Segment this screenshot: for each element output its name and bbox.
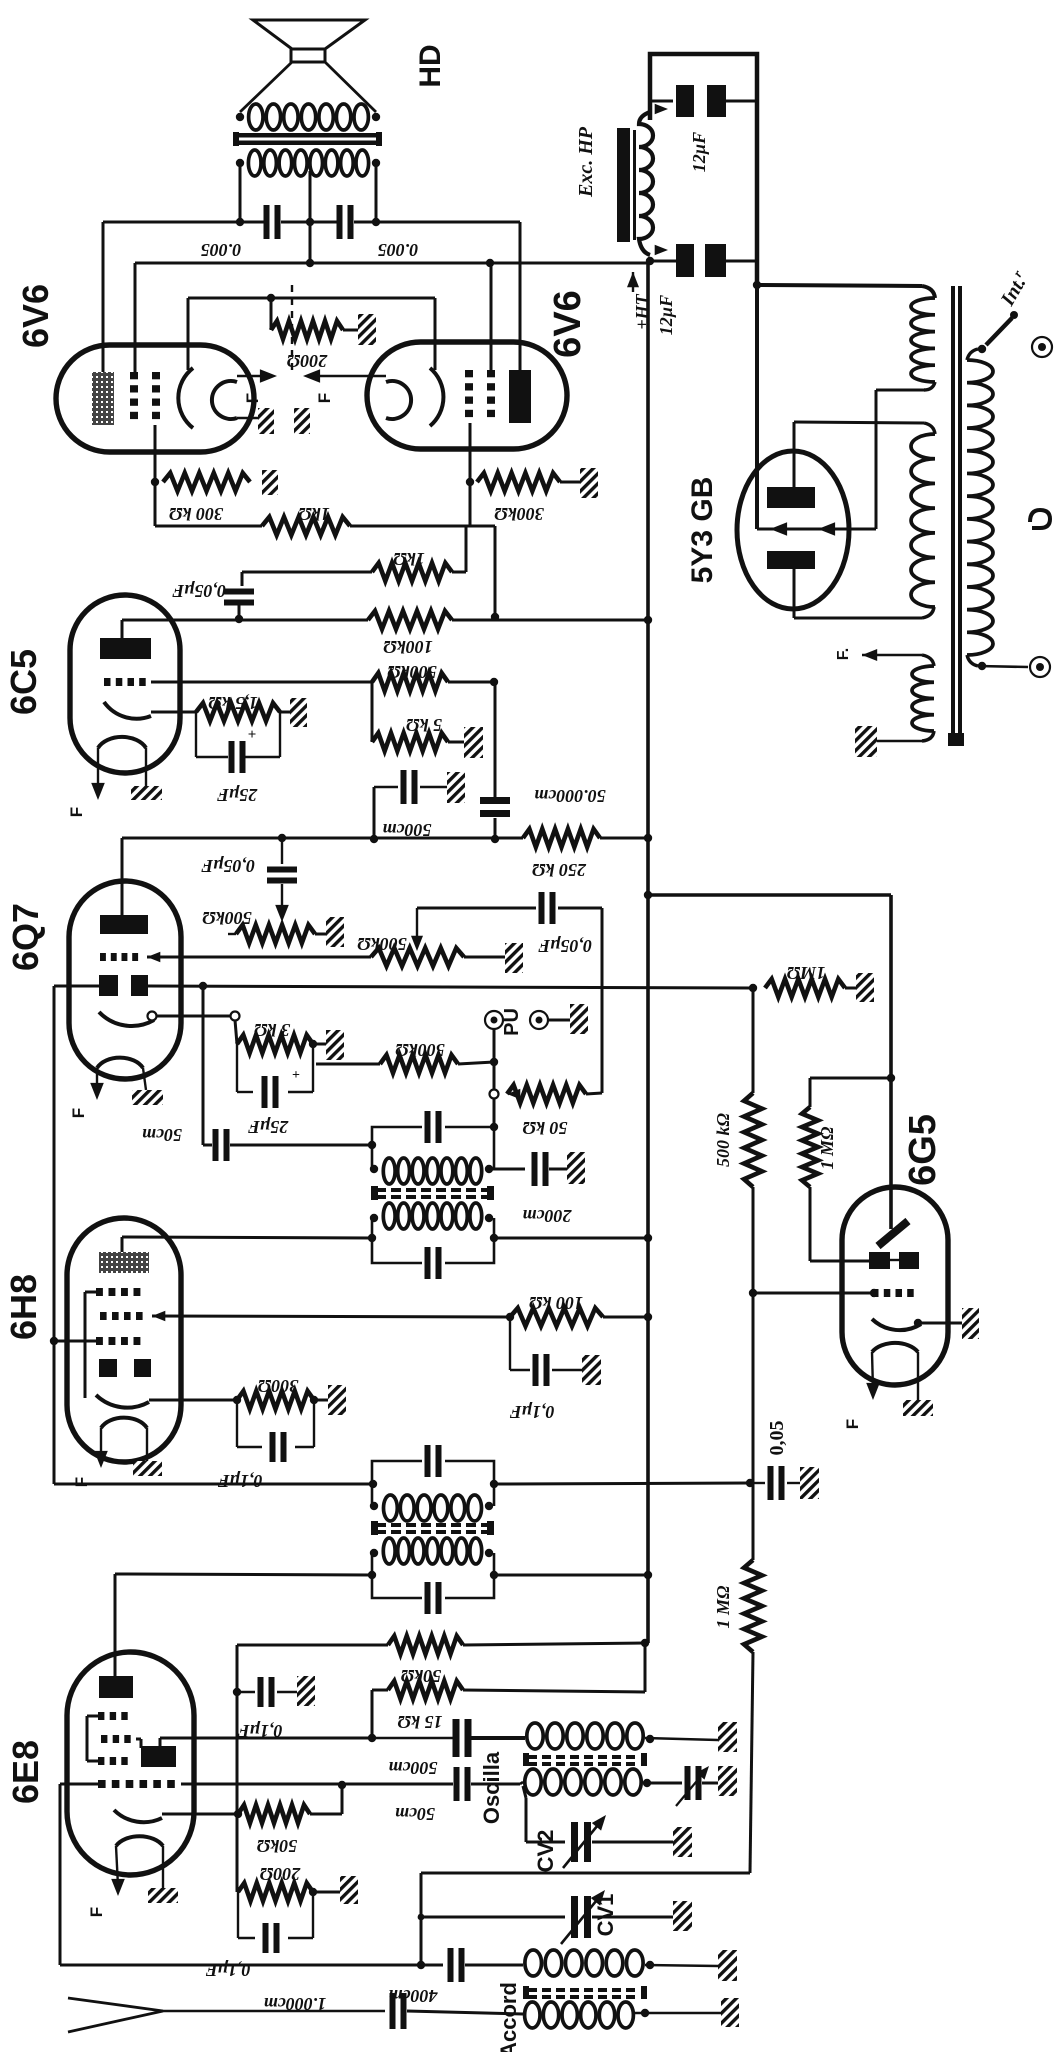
wire 6V6R screen up	[490, 263, 493, 370]
wire CV1 gnd	[592, 1916, 673, 1919]
wire 6H8 anode	[121, 1237, 124, 1252]
wire	[310, 1813, 342, 1816]
wire	[448, 681, 494, 684]
svg-text:Accord: Accord	[496, 1982, 521, 2052]
wire lower anode to HV2 bottom	[793, 569, 796, 618]
junction	[368, 1141, 376, 1149]
svg-text:500cm: 500cm	[389, 1758, 438, 1778]
loudspeaker voice coil	[291, 49, 325, 62]
tube 6E8 envelope	[67, 1652, 194, 1875]
svg-text:HD: HD	[414, 44, 447, 87]
capacitor 25uF 6C5	[195, 712, 197, 757]
power transformer mains winding	[967, 360, 993, 655]
junction	[490, 678, 498, 686]
junction	[306, 259, 314, 267]
svg-text:0,1µF: 0,1µF	[206, 1960, 251, 1980]
filament F arrow 6V6L	[237, 375, 268, 377]
cathode 6V6 left	[178, 368, 193, 428]
filament F arrow 6G5	[872, 1352, 873, 1390]
svg-text:500kΩ: 500kΩ	[357, 934, 407, 954]
wire B+ to HV top	[757, 285, 922, 286]
resistor 500k grid 6C5	[372, 673, 448, 691]
junction	[644, 616, 652, 624]
ground 300ohm	[328, 1385, 346, 1415]
screen grid 6V6 right	[487, 370, 495, 377]
resistor 300k 6V6L	[163, 473, 250, 491]
IF2 primary coil	[383, 1203, 395, 1229]
ground 6V6L heater	[237, 417, 258, 419]
resistor 500k PU	[380, 1055, 458, 1073]
svg-text:Exc. HP: Exc. HP	[575, 126, 597, 198]
ground CV1	[673, 1901, 692, 1931]
svg-text:250 kΩ: 250 kΩ	[531, 860, 587, 880]
wire	[450, 1783, 453, 1786]
svg-text:300Ω: 300Ω	[257, 1376, 299, 1396]
svg-text:1,5 kΩ: 1,5 kΩ	[208, 693, 258, 713]
HT rail	[646, 261, 650, 1643]
anode 5Y3 lower	[767, 551, 815, 569]
wire IF2 primary to HT	[494, 1237, 648, 1240]
power transformer HV winding top	[911, 298, 935, 382]
power transformer HV winding bottom	[911, 434, 935, 607]
svg-text:200Ω: 200Ω	[259, 1864, 301, 1884]
ray electrodes 6G5	[869, 1252, 890, 1269]
filter box frame	[650, 54, 757, 285]
svg-text:50kΩ: 50kΩ	[256, 1836, 297, 1856]
resistor 50k PU	[507, 1089, 520, 1099]
wire 6E8 cathode	[162, 1813, 238, 1816]
svg-text:12µF: 12µF	[689, 132, 709, 172]
wire 6E8 anode	[114, 1574, 117, 1676]
capacitor CV2 variable	[571, 1822, 578, 1862]
svg-text:0.005: 0.005	[378, 240, 419, 260]
svg-text:1.000cm: 1.000cm	[264, 1994, 327, 2014]
svg-text:F: F	[72, 1477, 91, 1487]
grid 6Q7	[100, 953, 106, 961]
junction	[644, 834, 652, 842]
AVC rail lower	[750, 1652, 753, 1873]
heater 6E8	[116, 1836, 163, 1846]
tube 6V6 right envelope	[367, 342, 567, 449]
wire	[313, 1891, 340, 1894]
wire 6V6R cathode up	[434, 298, 437, 370]
wire 1k lower right	[452, 571, 466, 574]
potentiometer 500k grid	[371, 948, 464, 966]
capacitor 50cm osc grid	[454, 1767, 460, 1801]
ground 200ohm	[358, 314, 376, 345]
IF2 primary box	[372, 1218, 422, 1263]
wire	[560, 481, 580, 484]
svg-text:CV1: CV1	[593, 1894, 618, 1937]
capacitor 0.1uF osc cath	[237, 1892, 239, 1938]
svg-text:6G5: 6G5	[902, 1114, 944, 1186]
svg-text:0,1µF: 0,1µF	[238, 1721, 283, 1741]
heater 6Q7	[97, 1058, 143, 1068]
junction	[418, 1914, 425, 1921]
wire HV top bottom end	[924, 382, 935, 390]
IF1 primary coil	[383, 1538, 395, 1564]
wire 6V6L grid down	[154, 425, 157, 482]
wire 6C5 anode	[121, 620, 124, 638]
wire to HT rail	[463, 1643, 645, 1645]
wire osc grid line	[181, 1783, 450, 1786]
capacitor 50cm det	[213, 1129, 219, 1161]
wire PU gnd	[548, 1019, 570, 1022]
capacitor 1000cm antenna	[390, 1993, 396, 2029]
wire	[313, 1043, 326, 1046]
resistor 50k feed	[388, 1636, 463, 1654]
svg-text:6V6: 6V6	[547, 290, 589, 358]
svg-text:0,1µF: 0,1µF	[218, 1471, 263, 1491]
CV2 arrow	[563, 1820, 602, 1868]
svg-text:15 kΩ: 15 kΩ	[397, 1712, 443, 1732]
ground 6C5 heater	[145, 748, 147, 786]
wire primary centre tap	[309, 171, 312, 222]
wire 6C5 cathode	[151, 711, 196, 714]
trimmer arrow	[676, 1770, 706, 1806]
AVC rail mid	[752, 1187, 755, 1560]
ground 6H8 heater	[146, 1428, 148, 1461]
output transformer T1 secondary	[249, 104, 263, 130]
svg-text:12µF: 12µF	[656, 295, 676, 335]
svg-text:400cm: 400cm	[389, 1986, 439, 2006]
ground 200cm	[567, 1152, 585, 1184]
IF1 secondary box	[372, 1461, 422, 1484]
wire 6H8 screen line	[152, 1311, 165, 1321]
output transformer T1 primary	[248, 150, 261, 176]
capacitor 500cm det	[401, 770, 407, 804]
ground osc trimmer	[718, 1766, 737, 1796]
ground L3	[718, 1722, 737, 1752]
IF1 primary box	[372, 1553, 422, 1598]
ground 6Q7 heater	[143, 1068, 146, 1090]
grid g1 6H8	[96, 1337, 103, 1345]
wire x495 coupling chain	[494, 682, 497, 797]
terminal PU right	[530, 1011, 548, 1029]
contact circle	[490, 1090, 499, 1099]
junction	[644, 1313, 652, 1321]
capacitor 0.05 AVC	[750, 1482, 765, 1484]
antenna core	[528, 1988, 537, 1992]
cathode 6E8	[114, 1810, 162, 1822]
junction	[50, 1337, 58, 1345]
svg-text:6Q7: 6Q7	[5, 903, 46, 971]
ground 3k	[326, 1030, 344, 1060]
wire 6Q7 anode to plate line	[121, 838, 124, 915]
wire mains top to switch	[967, 349, 978, 360]
junction	[749, 1289, 757, 1297]
wire	[448, 741, 464, 744]
wire	[458, 1062, 494, 1064]
ground 0.05 AVC	[800, 1467, 819, 1499]
svg-text:5 kΩ: 5 kΩ	[405, 715, 442, 735]
svg-text:500kΩ: 500kΩ	[395, 1040, 445, 1060]
capacitor 200cm	[532, 1152, 538, 1186]
svg-text:1kΩ: 1kΩ	[393, 549, 425, 569]
capacitor 50.000cm	[480, 797, 510, 804]
wire PU vertical	[493, 1029, 496, 1127]
wire IF1 primary to HT	[494, 1574, 648, 1577]
anode 6H8	[99, 1252, 149, 1273]
wire AVC detector line	[148, 986, 753, 988]
resistor 250k plate load	[523, 829, 600, 847]
wire AVC to left	[54, 985, 99, 988]
svg-text:F: F	[315, 393, 334, 403]
capacitor 0.1uF 6H8 cath	[236, 1400, 238, 1447]
ground 300k R	[580, 468, 598, 498]
wire	[343, 329, 358, 332]
svg-text:Oscilla: Oscilla	[479, 1751, 504, 1824]
wire speaker to secondary left	[240, 62, 292, 112]
wire 500k to 5k	[371, 682, 374, 742]
IF1 core	[376, 1523, 386, 1527]
terminal mains lower	[1030, 657, 1050, 677]
diode squares 6H8	[99, 1359, 117, 1377]
switch Int lever	[986, 318, 1012, 345]
grid 6G5	[872, 1289, 879, 1297]
cathode 6C5	[104, 702, 151, 719]
junction	[306, 218, 314, 226]
ground 6V6R heater	[294, 408, 310, 434]
heater 6H8	[101, 1418, 147, 1428]
svg-text:50cm: 50cm	[142, 1125, 182, 1145]
svg-text:F: F	[843, 1419, 862, 1429]
ground L1	[718, 1950, 737, 1981]
wire	[558, 907, 602, 910]
junction	[491, 835, 499, 843]
svg-text:3 kΩ: 3 kΩ	[253, 1020, 291, 1040]
svg-text:0,05µF: 0,05µF	[172, 581, 226, 601]
osc core	[528, 1755, 537, 1759]
contact circle	[148, 1012, 157, 1021]
CV1 arrow	[561, 1895, 601, 1944]
svg-text:0,05: 0,05	[766, 1421, 788, 1456]
tube 6C5 envelope	[70, 595, 180, 773]
wire	[280, 711, 290, 714]
antenna symbol	[68, 1998, 163, 2011]
fuse curl	[1030, 510, 1050, 528]
anode 6V6 left	[92, 372, 114, 425]
capacitor 0.1uF osc plate	[237, 1691, 255, 1693]
ground L2	[721, 1998, 739, 2027]
ground 6E8 heater	[162, 1846, 164, 1888]
power transformer core	[951, 286, 955, 746]
wire AVC to IF1	[54, 1483, 373, 1486]
wire to 3k	[235, 1020, 237, 1044]
ground	[297, 1676, 315, 1706]
ground 6G5 cathode	[962, 1308, 979, 1339]
oscillator coil L3	[527, 1723, 543, 1749]
wire 1M bottom	[809, 1187, 812, 1261]
ground 500cm det	[447, 772, 465, 803]
wire	[603, 1316, 648, 1319]
wire HT to 6G5 target	[648, 893, 891, 897]
wire 50k up	[586, 1093, 602, 1094]
heater 6V6 right	[386, 381, 411, 419]
wire row2 to osc anode	[136, 1738, 141, 1741]
wire 5Y3 filament line	[757, 528, 876, 531]
AVC rail upper	[752, 988, 755, 1093]
wire y1645	[237, 1644, 388, 1647]
capacitor 0.005 right	[337, 205, 343, 239]
wire IF2 sec to 200cm	[489, 1168, 525, 1171]
cathode 6V6 right	[430, 368, 443, 426]
junction	[490, 1480, 498, 1488]
ground 6G5 heater	[917, 1352, 919, 1400]
screen grid 6V6 left	[130, 372, 138, 379]
wire cathodes bus y298	[188, 297, 435, 300]
junction	[644, 891, 652, 899]
ground	[505, 943, 523, 973]
wire	[407, 2011, 523, 2014]
output transformer T1 core	[237, 133, 378, 138]
wire 6G5 grid to AVC	[753, 1292, 872, 1295]
junction	[199, 982, 207, 990]
ground PU	[570, 1004, 588, 1034]
wire g3 tie	[85, 1291, 96, 1294]
svg-text:200cm: 200cm	[523, 1206, 573, 1226]
capacitor 25uF 6Q7	[236, 1044, 238, 1092]
IF1 secondary trimmer	[425, 1445, 431, 1477]
grid g2 6H8	[100, 1312, 107, 1320]
wire	[702, 1782, 718, 1785]
crease mark	[291, 285, 293, 372]
wire	[238, 605, 241, 619]
junction	[490, 1058, 498, 1066]
wire	[464, 956, 505, 959]
wire	[465, 1964, 523, 1967]
resistor 1M eye grid	[802, 1107, 818, 1187]
resistor 1k upper	[262, 517, 350, 535]
junction	[233, 1688, 241, 1696]
wire	[549, 1168, 567, 1171]
wire 6V6L cathode up	[187, 298, 190, 370]
svg-text:6E8: 6E8	[5, 1740, 46, 1804]
wire osc anode out	[159, 1738, 162, 1746]
anode 5Y3 upper	[767, 487, 815, 508]
wire 1k lower left to cap	[256, 571, 372, 574]
svg-text:1MΩ: 1MΩ	[786, 963, 825, 983]
junction	[753, 281, 761, 289]
svg-text:0,1µF: 0,1µF	[510, 1402, 555, 1422]
junction	[646, 257, 654, 265]
grid row4 6E8	[98, 1780, 106, 1788]
wire primary right down	[375, 163, 378, 222]
resistor 3k cathode	[237, 1035, 313, 1053]
filament F arrow 6C5	[97, 748, 99, 790]
capacitor 0.1uF screen	[509, 1317, 511, 1370]
junction	[466, 478, 474, 486]
junction	[372, 218, 380, 226]
tube 6G5 envelope	[842, 1187, 948, 1385]
wire	[316, 1063, 380, 1066]
resistor 200ohm osc	[238, 1883, 313, 1901]
choke field coil core	[617, 128, 630, 242]
svg-text:500kΩ: 500kΩ	[387, 662, 437, 682]
junction	[309, 1888, 317, 1896]
wire	[230, 1144, 372, 1147]
wire 6V6L screen up	[134, 263, 137, 372]
svg-text:0,05µF: 0,05µF	[538, 936, 592, 956]
wire 6V6R anode up	[519, 222, 522, 370]
wiper arrow	[416, 908, 418, 944]
svg-text:25µF: 25µF	[217, 785, 258, 805]
wire	[315, 933, 326, 936]
wire	[845, 987, 856, 990]
power transformer filament winding	[912, 666, 934, 731]
wire 6C5 grid	[151, 681, 372, 684]
svg-text:1kΩ: 1kΩ	[298, 504, 330, 524]
wire 15k right to HT	[463, 1690, 645, 1692]
grid 6C5	[104, 678, 111, 686]
ground 300k L	[262, 470, 278, 495]
capacitor 500cm padder	[453, 1719, 460, 1757]
wire 500cm stem	[373, 787, 376, 839]
capacitor 0.05uF det coupling	[281, 838, 283, 864]
heater 6C5	[98, 737, 146, 748]
anode 6Q7	[100, 915, 148, 934]
capacitor 0.005 left	[264, 205, 270, 239]
junction	[486, 259, 494, 267]
wire 6V6L anode up	[102, 222, 105, 372]
ground 1.5k	[290, 698, 307, 727]
wire g tie	[87, 1715, 98, 1718]
svg-text:PU: PU	[501, 1008, 523, 1036]
svg-text:6C5: 6C5	[3, 649, 44, 715]
target bar 6G5	[878, 1221, 908, 1246]
resistor 300k 6V6R	[477, 473, 560, 491]
svg-text:500kΩ: 500kΩ	[202, 908, 252, 928]
IF2 core	[376, 1188, 386, 1192]
svg-text:6H8: 6H8	[3, 1274, 44, 1340]
terminal PU left	[485, 1011, 503, 1029]
ground 0.1uF screen	[582, 1355, 601, 1385]
wire upper anode to HV2	[793, 422, 796, 487]
grid row1 6E8	[98, 1712, 104, 1720]
svg-text:F: F	[243, 393, 262, 403]
svg-text:500 kΩ: 500 kΩ	[713, 1112, 733, 1167]
cathode 6H8	[96, 1395, 149, 1408]
grid g3 6H8	[96, 1288, 103, 1296]
ground CV2	[673, 1827, 692, 1857]
svg-text:1 MΩ: 1 MΩ	[713, 1585, 733, 1629]
antenna coil L1	[525, 1950, 542, 1976]
svg-text:6V6: 6V6	[15, 284, 56, 348]
wire centre tap to HT bus	[309, 222, 312, 263]
tube 5Y3 envelope	[737, 451, 849, 609]
svg-text:300 kΩ: 300 kΩ	[168, 504, 224, 524]
junction	[267, 294, 275, 302]
filament F arrow 6Q7	[96, 1068, 98, 1090]
potentiometer 500k volume	[236, 925, 315, 943]
svg-text:50 kΩ: 50 kΩ	[522, 1118, 568, 1138]
svg-text:F: F	[87, 1907, 106, 1917]
svg-text:F: F	[67, 807, 86, 817]
junction	[151, 478, 159, 486]
svg-text:1 MΩ: 1 MΩ	[817, 1126, 837, 1170]
junction	[417, 1961, 425, 1969]
junction	[370, 835, 378, 843]
svg-text:CV2: CV2	[533, 1830, 558, 1873]
grid row3 6E8	[98, 1757, 104, 1765]
loudspeaker HP cone	[253, 20, 365, 49]
junction	[490, 1123, 498, 1131]
svg-text:50cm: 50cm	[395, 1804, 435, 1824]
svg-text:0,05µF: 0,05µF	[201, 856, 255, 876]
heater 6G5	[872, 1343, 918, 1352]
junction	[368, 1734, 376, 1742]
resistor 300ohm cathode	[237, 1391, 314, 1409]
